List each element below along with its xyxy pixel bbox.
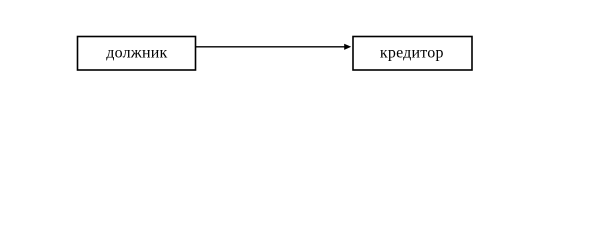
box кредитор — [353, 37, 472, 71]
arrowhead — [344, 44, 351, 50]
box должник — [78, 37, 196, 71]
wire arrow shaft — [196, 46, 345, 48]
svg-text:кредитор: кредитор — [380, 44, 444, 61]
flow diagram: должник -> кредитор — [0, 0, 613, 121]
svg-text:должник: должник — [106, 44, 167, 61]
